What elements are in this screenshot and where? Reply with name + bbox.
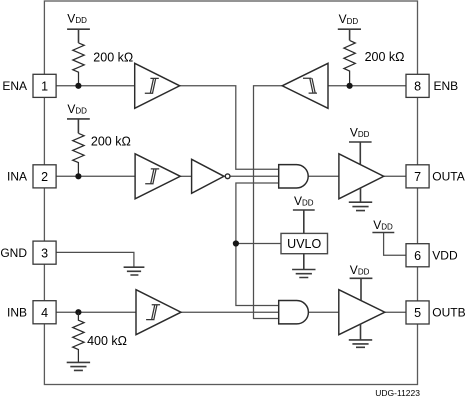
svg-text:VDD: VDD — [432, 249, 458, 263]
inverter after schmitt A2 — [192, 159, 224, 193]
pin 3 box — [33, 241, 56, 264]
wire GND pin3 to ground — [56, 252, 134, 267]
AND gate A — [279, 165, 309, 188]
wire UVLO net to AND A bottom input — [236, 183, 279, 306]
ground symbol driver B — [349, 340, 372, 347]
VDD rail symbol for R-ENB — [338, 29, 361, 40]
svg-text:200 kΩ: 200 kΩ — [91, 135, 131, 149]
wire driver B output to OUTB pin5 — [385, 311, 406, 313]
wire ENA pin1 to schmitt A input — [56, 85, 135, 87]
ground symbol UVLO — [292, 270, 315, 278]
svg-text:200 kΩ: 200 kΩ — [365, 50, 405, 64]
junction dot INA — [75, 173, 81, 179]
svg-text:7: 7 — [414, 170, 421, 184]
svg-text:UVLO: UVLO — [287, 237, 321, 251]
pin 6 box — [406, 244, 429, 267]
svg-text:VDD: VDD — [339, 12, 359, 26]
svg-text:VDD: VDD — [350, 125, 370, 139]
svg-text:5: 5 — [414, 306, 421, 320]
svg-text:VDD: VDD — [350, 263, 370, 277]
wire inverter bubble to AND A middle input — [230, 175, 279, 177]
svg-text:1: 1 — [41, 80, 48, 94]
inverter bubble — [225, 174, 230, 179]
schmitt buffer A1 (ENA) — [135, 63, 180, 108]
svg-text:4: 4 — [41, 306, 48, 320]
svg-text:ENB: ENB — [434, 79, 459, 93]
wire ENB pin8 to buffer — [328, 85, 406, 87]
wire AND B output to driver B — [308, 311, 338, 313]
svg-text:VDD: VDD — [67, 102, 87, 116]
wire INB pin4 to schmitt input — [56, 311, 136, 313]
resistor R-ENA 200k pull-up — [73, 43, 84, 86]
VDD rail symbol UVLO — [293, 210, 315, 233]
svg-text:UDG-11223: UDG-11223 — [375, 388, 420, 397]
pin 5 box — [406, 301, 429, 324]
wire ENB buffer output to AND B bottom input — [254, 86, 283, 319]
ground symbol driver A — [349, 202, 372, 210]
schmitt buffer B (INB) — [136, 290, 181, 335]
wire UVLO output horizontal — [236, 243, 281, 245]
svg-text:ENA: ENA — [2, 79, 27, 93]
svg-text:VDD: VDD — [294, 194, 314, 208]
wire VDD symbol to pin6 — [384, 233, 406, 256]
svg-text:OUTB: OUTB — [432, 306, 465, 320]
ground stem driver A — [360, 188, 362, 202]
resistor R-ENB 200k pull-up — [344, 40, 355, 85]
pin 1 box — [33, 74, 56, 97]
pin 4 box — [33, 301, 56, 324]
svg-text:INA: INA — [7, 170, 27, 184]
ground symbol below R-INB — [67, 362, 90, 370]
AND gate B — [279, 301, 309, 324]
wire schmitt A2 output to inverter — [180, 175, 191, 177]
pin 2 box — [33, 165, 56, 188]
wire driver A output to OUTA pin7 — [384, 175, 406, 177]
svg-text:VDD: VDD — [67, 11, 87, 25]
hysteresis glyph in ENB buffer (mirrored) — [303, 78, 317, 93]
svg-text:200 kΩ: 200 kΩ — [93, 51, 133, 65]
VDD rail symbol driver B — [350, 278, 373, 300]
wire INA pin2 to schmitt input — [56, 175, 135, 177]
svg-text:400 kΩ: 400 kΩ — [87, 334, 127, 348]
svg-text:GND: GND — [0, 246, 27, 260]
schmitt buffer ENB (left pointing) — [282, 63, 328, 108]
hysteresis glyph in buffer A1 — [145, 78, 159, 93]
wire ENA schmitt output to corner — [180, 86, 279, 169]
VDD rail symbol for R-INA — [67, 119, 90, 133]
hysteresis glyph in buffer B — [146, 305, 160, 320]
output driver A — [339, 154, 384, 199]
svg-text:8: 8 — [414, 80, 421, 94]
IC boundary rectangle — [44, 1, 417, 385]
VDD rail symbol pin6 — [372, 232, 394, 234]
VDD rail symbol driver A — [349, 142, 372, 164]
svg-text:3: 3 — [41, 246, 48, 260]
svg-text:INB: INB — [7, 305, 27, 319]
pin 8 box — [406, 74, 429, 97]
hysteresis glyph in buffer A2 — [145, 169, 159, 184]
svg-text:VDD: VDD — [373, 218, 393, 232]
resistor R-INB 400k pull-down — [73, 312, 84, 362]
wire schmitt B output to AND B middle input — [181, 311, 279, 313]
VDD rail symbol for R-ENA — [67, 29, 90, 43]
svg-text:2: 2 — [41, 170, 48, 184]
ground stem UVLO — [303, 254, 305, 270]
ground symbol pin3 GND — [124, 267, 145, 275]
ground stem driver B — [360, 324, 362, 340]
UVLO block — [281, 233, 328, 253]
junction dot INB — [75, 309, 81, 315]
junction dot ENA — [75, 83, 81, 89]
wire AND A output to driver A — [308, 175, 339, 177]
junction dot ENB — [347, 83, 353, 89]
resistor R-INA 200k pull-up — [73, 133, 84, 176]
svg-text:OUTA: OUTA — [432, 170, 464, 184]
output driver B — [339, 290, 385, 335]
svg-text:6: 6 — [414, 249, 421, 263]
schmitt buffer A2 (INA) — [135, 154, 180, 199]
junction dot UVLO net — [233, 240, 239, 246]
pin 7 box — [406, 165, 429, 188]
